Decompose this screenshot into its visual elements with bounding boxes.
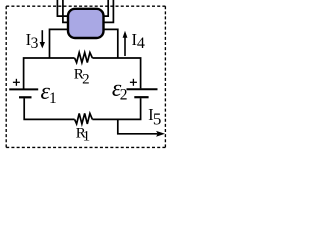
- plus sign of emf1: [13, 81, 20, 83]
- wire: box lower-left to node at R2 branch: [50, 29, 69, 58]
- battery emf2 short plate: [134, 96, 148, 98]
- wire: I5 exit lead with arrow: [118, 119, 158, 133]
- svg-text:1: 1: [49, 90, 57, 107]
- svg-text:4: 4: [137, 35, 145, 52]
- wire: R1 right along bottom, up to emf2 negative plate: [92, 98, 140, 119]
- svg-text:1: 1: [83, 128, 91, 144]
- svg-text:2: 2: [82, 72, 90, 88]
- wire: upper-right inner lead into top edge: [103, 0, 108, 16]
- wire: R2 right to corner, down to emf2 positive plate: [92, 58, 140, 88]
- arrowhead I5: [156, 131, 165, 137]
- wire: upper-left inner lead into top edge: [63, 0, 69, 22]
- wire: box lower-right to node at R2 branch: [103, 29, 118, 58]
- battery emf1 long plate: [9, 88, 38, 90]
- svg-text:5: 5: [153, 110, 162, 129]
- resistor R2: [75, 53, 93, 63]
- wire: emf1 negative plate down to bottom branch and right to R1: [24, 98, 74, 119]
- component box (shaded element): [68, 9, 104, 38]
- resistor R1: [75, 113, 93, 124]
- battery emf1 short plate: [19, 96, 32, 98]
- battery emf2 long plate: [127, 88, 158, 90]
- current arrow I4 (up): [124, 37, 126, 56]
- dashed boundary frame: [6, 6, 165, 147]
- wire: upper-left outer lead into top edge: [57, 0, 68, 16]
- svg-text:2: 2: [120, 87, 128, 104]
- current arrow I3 (down): [41, 30, 43, 43]
- plus sign of emf2: [130, 81, 137, 83]
- wire: upper-right outer lead into top edge: [103, 0, 113, 22]
- wire: emf1 positive plate up to middle branch and right to R2: [24, 58, 75, 89]
- svg-text:3: 3: [31, 35, 39, 52]
